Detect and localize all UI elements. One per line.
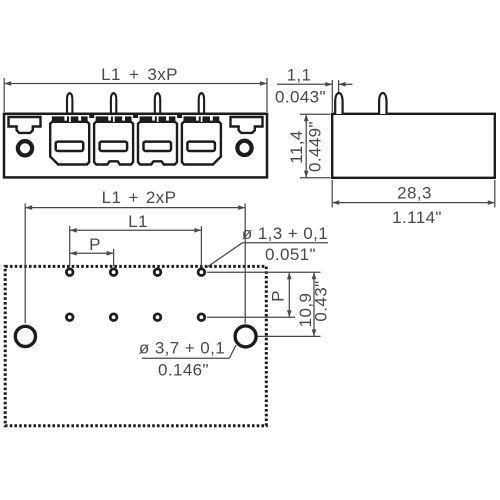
dia 1,3 leader [207, 243, 243, 267]
svg-text:P: P [89, 235, 101, 254]
dia 3,7 leader [229, 345, 236, 358]
svg-text:28,3: 28,3 [397, 184, 432, 203]
dim L1+3xP extension left [3, 78, 5, 112]
dim L1+2xP line [25, 207, 245, 209]
pin 3 front [155, 93, 160, 114]
dim L1+2xP extension left [24, 204, 26, 324]
dim 10,9 extension [258, 335, 321, 337]
pin hole row 1 col 3 [154, 269, 161, 276]
svg-text:L1 + 3xP: L1 + 3xP [101, 65, 178, 84]
mounting hole right [235, 326, 256, 347]
pin housing module 2 [94, 122, 133, 165]
module 4 slot [187, 142, 215, 151]
svg-text:0.051": 0.051" [265, 245, 316, 264]
pin 4 slit [201, 115, 203, 122]
svg-text:1,1: 1,1 [287, 66, 312, 85]
dim L1 line [70, 229, 202, 231]
pin hole row 1 col 2 [110, 269, 117, 276]
dim 28,3 line [332, 202, 495, 204]
pin hole row 2 col 2 [110, 314, 117, 321]
svg-text:ø 3,7 + 0,1: ø 3,7 + 0,1 [139, 339, 225, 358]
pin housing module 4 [182, 122, 221, 165]
dim P vert line [288, 272, 290, 317]
dim P line [70, 252, 114, 254]
module 4 teeth [184, 116, 197, 122]
dim P extension [113, 249, 115, 267]
module 3 slot [144, 142, 172, 151]
pin 2 slit [113, 115, 115, 122]
dim L1+2xP extension right [244, 204, 246, 324]
pin hole row 2 col 1 [66, 314, 73, 321]
side view pin [335, 93, 342, 114]
pin 1 front [67, 93, 72, 114]
svg-text:P: P [268, 290, 287, 302]
svg-text:0.43": 0.43" [311, 280, 330, 321]
dim 28,3 extension lines [331, 180, 333, 208]
svg-text:11,4: 11,4 [287, 130, 306, 163]
pin hole row 2 col 3 [154, 314, 161, 321]
pin housing module 1 [50, 122, 89, 165]
svg-text:1.114": 1.114" [392, 208, 442, 227]
flange cutout left [9, 117, 41, 133]
svg-text:L1 + 2xP: L1 + 2xP [102, 188, 177, 207]
dia 3,7 underline [142, 357, 230, 359]
drilling plan dashed outline [5, 266, 266, 425]
svg-text:ø 1,3 + 0,1: ø 1,3 + 0,1 [242, 224, 328, 243]
body top line overdraw [4, 113, 267, 116]
svg-text:L1: L1 [128, 212, 148, 231]
dim 1,1 lines [277, 83, 332, 85]
dim P vert extensions [207, 271, 321, 273]
pin 4 front [199, 93, 204, 114]
dim L1 extension lines [69, 226, 71, 267]
flange cutout right [231, 117, 263, 133]
svg-text:0.449": 0.449" [306, 121, 325, 172]
dim 11,4 line [305, 114, 307, 178]
housing gap bar [177, 113, 182, 118]
mounting hole left [15, 326, 35, 346]
side view body [332, 114, 495, 178]
dim 11,4 extension lines [300, 113, 331, 115]
screw hole right [237, 141, 251, 155]
dim L1+3xP line [4, 83, 267, 85]
pin 3 slit [157, 115, 159, 122]
pin housing module 3 [138, 122, 177, 165]
front view connector body [4, 114, 267, 178]
svg-text:0.043": 0.043" [275, 88, 326, 107]
module 2 slot [100, 142, 128, 151]
pin hole row 2 col 4 [198, 314, 205, 321]
module 1 teeth [52, 116, 65, 122]
housing gap bar [89, 113, 94, 118]
dia 1,3 underline [242, 242, 328, 244]
side view pin [379, 93, 386, 114]
pin hole row 1 col 4 [198, 269, 205, 276]
pin 2 front [111, 93, 116, 114]
dim 1,1 extension lines [331, 80, 333, 112]
module 3 teeth [140, 116, 153, 122]
module 2 teeth [96, 116, 109, 122]
module 1 slot [56, 142, 83, 151]
screw hole left [18, 141, 32, 155]
pin 1 slit [69, 115, 71, 122]
dim L1+3xP extension right [266, 78, 268, 112]
dim 10,9 line [313, 272, 315, 336]
housing gap bar [133, 113, 138, 118]
pin hole row 1 col 1 [66, 269, 73, 276]
svg-text:0.146": 0.146" [158, 361, 209, 380]
